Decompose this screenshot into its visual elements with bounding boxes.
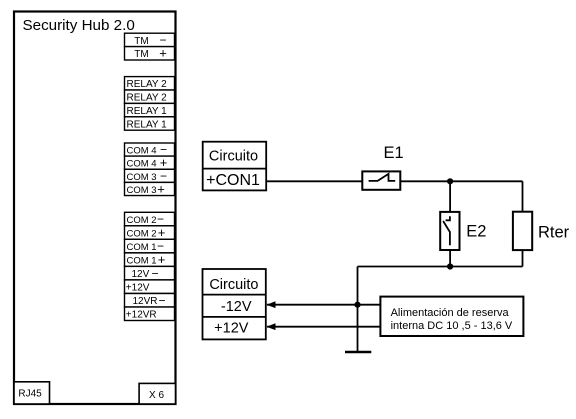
svg-text:COM 4: COM 4 — [127, 159, 157, 170]
terminal COM 4 - — [125, 143, 175, 157]
resistor Rter — [513, 212, 532, 250]
svg-text:COM 4: COM 4 — [127, 146, 157, 157]
block: Alimentacion de reserva (backup supply) — [380, 297, 523, 336]
terminal COM 3 - — [125, 169, 175, 183]
ground — [345, 351, 371, 354]
svg-text:COM 2: COM 2 — [127, 215, 157, 226]
wire ground drop — [357, 267, 359, 353]
contact E2 (tamper contact) — [440, 212, 459, 250]
svg-text:RELAY 1: RELAY 1 — [127, 106, 168, 117]
node C (junction dot, ground / -12V wire) — [354, 302, 360, 308]
svg-text:+: + — [160, 155, 168, 170]
svg-text:COM 3: COM 3 — [127, 185, 157, 196]
wire -12V (arrow into circuit) — [267, 301, 381, 308]
svg-text:+: + — [159, 46, 167, 61]
terminal RELAY 1 (a) — [125, 103, 175, 117]
svg-text:RELAY 1: RELAY 1 — [127, 119, 168, 130]
svg-text:RELAY 2: RELAY 2 — [127, 79, 168, 90]
svg-text:−: − — [151, 266, 158, 280]
svg-text:interna DC 10 ,5 - 13,6 V: interna DC 10 ,5 - 13,6 V — [391, 320, 513, 332]
svg-text:RELAY 2: RELAY 2 — [127, 93, 168, 104]
svg-text:+: + — [158, 252, 166, 267]
terminal COM 2 + — [125, 225, 175, 240]
svg-text:+12VR: +12VR — [126, 310, 157, 321]
terminal RELAY 2 (a) — [125, 77, 175, 91]
terminal TM - — [125, 33, 175, 47]
wire node A down to Rter (right branch) — [522, 181, 524, 211]
svg-text:−: − — [157, 212, 164, 226]
terminal COM 4 + — [125, 155, 175, 170]
wire E2 bottom lead — [449, 250, 451, 267]
connector X 6 — [139, 383, 175, 404]
svg-text:Rter: Rter — [538, 224, 570, 242]
wire E2 top lead — [449, 181, 451, 212]
svg-text:+: + — [158, 225, 166, 240]
terminal COM 3 + — [125, 182, 175, 197]
svg-text:Circuito: Circuito — [209, 148, 258, 164]
svg-text:Security Hub 2.0: Security Hub 2.0 — [23, 17, 135, 34]
contact E1 (alarm loop contact) — [362, 171, 400, 189]
svg-text:+CON1: +CON1 — [206, 172, 260, 189]
svg-text:12V: 12V — [132, 269, 150, 280]
terminal TM + — [125, 46, 175, 61]
node B (junction dot, bottom rail / E2) — [447, 263, 453, 269]
terminal RELAY 2 (b) — [125, 90, 175, 104]
terminal +12V — [125, 280, 175, 294]
svg-text:−: − — [158, 293, 165, 307]
terminal RELAY 1 (b) — [125, 117, 175, 131]
svg-text:Alimentación de reserva: Alimentación de reserva — [391, 307, 510, 319]
svg-text:COM 2: COM 2 — [127, 229, 157, 240]
svg-text:E2: E2 — [466, 223, 486, 241]
svg-text:TM: TM — [134, 49, 148, 60]
wire Rter bottom lead — [522, 250, 524, 266]
svg-text:TM: TM — [134, 36, 148, 47]
svg-text:COM 3: COM 3 — [127, 172, 157, 183]
device outline U1: Security Hub 2.0 — [14, 12, 176, 405]
svg-text:COM 1: COM 1 — [127, 256, 157, 267]
connector RJ45 — [14, 382, 50, 404]
wire +12V (arrow into circuit) — [267, 323, 381, 330]
block: Circuito -12V +12V — [203, 269, 266, 339]
wire bottom rail — [358, 266, 523, 268]
svg-text:E1: E1 — [384, 144, 404, 162]
svg-text:RJ45: RJ45 — [18, 389, 42, 400]
svg-text:−: − — [157, 239, 164, 253]
wire E1 to node A (top rail) — [400, 180, 522, 182]
terminal 12VR - — [125, 293, 175, 307]
svg-text:+: + — [157, 182, 165, 197]
terminal COM 1 - — [125, 239, 175, 253]
svg-text:X 6: X 6 — [149, 390, 164, 401]
svg-text:Circuito: Circuito — [209, 277, 258, 293]
terminal COM 2 - — [125, 212, 175, 226]
block: Circuito +CON1 — [203, 142, 267, 191]
svg-text:+12V: +12V — [126, 283, 150, 294]
node A (junction dot, top rail / E2) — [447, 178, 453, 184]
terminal COM 1 + — [125, 252, 175, 267]
terminal 12V - — [125, 266, 175, 280]
svg-text:+12V: +12V — [214, 321, 249, 337]
svg-text:12VR: 12VR — [133, 296, 158, 307]
svg-text:COM 1: COM 1 — [127, 242, 157, 253]
terminal +12VR — [125, 307, 175, 321]
svg-text:-12V: -12V — [221, 299, 252, 315]
wire +CON1 to E1 — [266, 180, 362, 182]
